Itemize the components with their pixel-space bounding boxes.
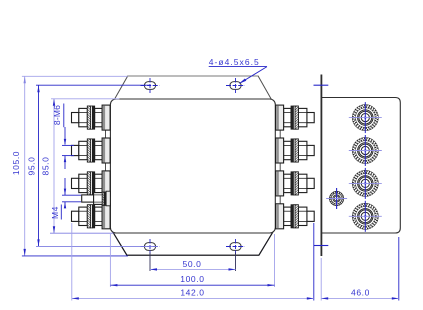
- svg-text:85.0: 85.0: [41, 157, 51, 176]
- svg-text:95.0: 95.0: [27, 157, 37, 176]
- svg-text:50.0: 50.0: [183, 259, 202, 269]
- svg-text:8-M6: 8-M6: [52, 105, 62, 125]
- svg-text:142.0: 142.0: [180, 288, 204, 298]
- svg-text:M4: M4: [50, 206, 60, 219]
- svg-text:105.0: 105.0: [11, 151, 21, 175]
- svg-text:100.0: 100.0: [180, 274, 204, 284]
- svg-text:46.0: 46.0: [351, 288, 370, 298]
- svg-text:4-ø4.5x6.5: 4-ø4.5x6.5: [209, 57, 260, 67]
